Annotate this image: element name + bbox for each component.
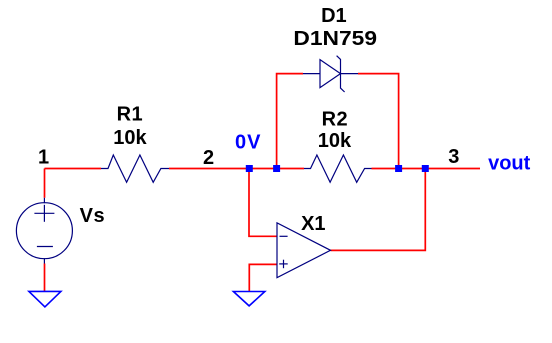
svg-text:D1N759: D1N759 bbox=[293, 27, 377, 49]
wire: op-amp output up to node D bbox=[331, 169, 426, 251]
svg-text:2: 2 bbox=[203, 147, 214, 169]
wire: diode cathode to node C bbox=[358, 74, 399, 169]
node D junction square bbox=[422, 165, 429, 172]
svg-text:R1: R1 bbox=[117, 103, 144, 125]
svg-text:3: 3 bbox=[448, 146, 459, 168]
svg-text:10k: 10k bbox=[318, 130, 352, 152]
wire: R2 to vout end bbox=[372, 168, 481, 170]
wire: Vs bottom to ground bbox=[44, 264, 46, 292]
resistor R1 bbox=[101, 155, 169, 182]
resistor R2 bbox=[304, 155, 372, 182]
wire: node B up to diode loop top left bbox=[277, 74, 303, 169]
wire: main horizontal node1 to R1 bbox=[45, 168, 102, 170]
svg-text:X1: X1 bbox=[301, 213, 325, 235]
value D1N759 bbox=[293, 27, 377, 49]
ground below Vs bbox=[29, 291, 61, 307]
node A junction square bbox=[246, 165, 253, 172]
wire: op-amp noninverting input to ground bbox=[249, 264, 277, 291]
svg-text:D1: D1 bbox=[321, 5, 347, 27]
wire: node1 down to Vs bbox=[44, 169, 46, 198]
svg-text:vout: vout bbox=[488, 152, 531, 174]
node C junction square bbox=[395, 165, 402, 172]
svg-text:Vs: Vs bbox=[80, 205, 105, 227]
wire: R1 to R2 through nodes 0V bbox=[169, 168, 304, 170]
zener diode D1 bbox=[303, 56, 358, 92]
svg-text:10k: 10k bbox=[113, 127, 147, 149]
svg-text:R2: R2 bbox=[322, 108, 349, 130]
svg-text:1: 1 bbox=[38, 147, 49, 169]
svg-text:0V: 0V bbox=[235, 132, 261, 154]
voltage source Vs bbox=[16, 198, 72, 264]
ground below op-amp noninverting input bbox=[233, 292, 264, 306]
op-amp X1 bbox=[277, 223, 331, 278]
node B junction square bbox=[273, 165, 280, 172]
wire: node A down to op-amp inverting input bbox=[249, 169, 277, 237]
